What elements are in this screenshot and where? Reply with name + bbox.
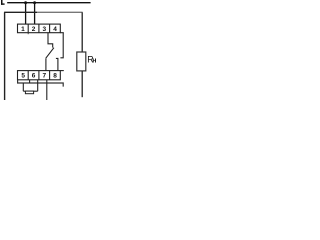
wire: moving terminal down to pin 7 — [45, 58, 47, 70]
svg-text:2: 2 — [32, 26, 36, 33]
pin labels 5-8 — [21, 73, 57, 80]
junction dot on top wire (right) — [33, 1, 36, 4]
svg-text:7: 7 — [42, 73, 46, 80]
relay contact: moving blade — [46, 48, 54, 59]
junction dot on top wire (left) — [24, 1, 27, 4]
wire: row1 bottom edge extension to contact — [60, 32, 64, 34]
node L (phase supply label) — [1, 0, 5, 5]
wire: top supply line from L — [7, 2, 90, 4]
svg-text:5: 5 — [21, 73, 25, 80]
wire: left return conductor (down the left side) — [4, 12, 6, 100]
wire: from bottom edge down to aux resistor — [22, 83, 24, 91]
svg-text:8: 8 — [53, 73, 57, 80]
aux resistor (small, horizontal) — [25, 91, 33, 94]
wire: stray stub below terminal 1|2 divider — [27, 33, 29, 35]
wire: pin 8 down to bottom margin — [46, 80, 48, 100]
wire: lower fixed terminal with tick — [56, 58, 58, 70]
svg-text:4: 4 — [53, 26, 57, 33]
wire: aux resistor leads — [23, 90, 37, 92]
svg-text:6: 6 — [32, 73, 36, 80]
terminal row 1 (pins 1-4) — [18, 24, 61, 33]
wire: drop to terminal 1 — [25, 3, 27, 25]
wire: horizontal feed to load (y=12.5) — [4, 11, 37, 13]
relay contact: second fixed contact from row1 extension — [60, 33, 63, 58]
wire: below load resistor — [81, 71, 83, 97]
svg-text:1: 1 — [21, 26, 25, 33]
wire: row2 top edge extension — [60, 70, 64, 72]
pin labels 1-4 — [21, 26, 57, 33]
relay contact: fixed side jog from terminal 3 — [48, 33, 53, 48]
wire: pin 6 stub to bottom edge — [29, 80, 31, 83]
terminal row 2 (pins 5-8) — [18, 71, 61, 80]
resistor Rn (load) — [77, 52, 86, 71]
svg-text:н: н — [92, 58, 96, 65]
wire: drop to terminal 2 — [34, 3, 36, 25]
wire: pin 7 down to aux resistor — [37, 80, 39, 91]
wire: drop on right side to load resistor — [81, 12, 83, 52]
wire: device box bottom edge — [18, 80, 64, 87]
svg-text:3: 3 — [42, 26, 46, 33]
